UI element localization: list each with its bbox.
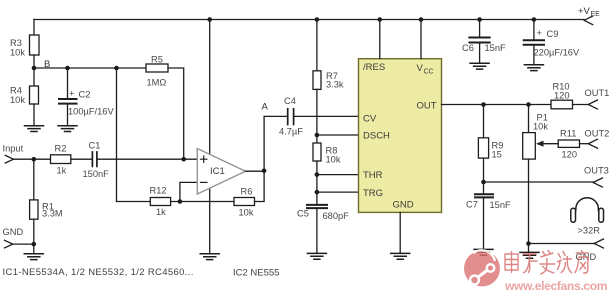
wire Vcc riser [420,20,422,59]
wire input row [14,158,51,160]
resistor R11 [558,140,579,147]
svg-text:220µF/16V: 220µF/16V [534,48,580,58]
resistor R7 [316,20,318,71]
svg-text:THR: THR [363,170,383,181]
svg-text:OUT1: OUT1 [585,88,610,98]
svg-text:R2: R2 [55,144,67,154]
ground below R4 [25,126,44,132]
svg-text:Input: Input [3,144,24,154]
resistor R5 [146,64,168,72]
wire OUT row [442,104,552,106]
OUT2 connector [588,139,597,148]
wire R5 right to noninverting input [168,68,184,159]
capacitor C1 [71,158,92,160]
headphone icon [576,198,599,211]
capacitor C5 [307,205,327,208]
op-amp U1 triangle [197,149,245,195]
svg-text:1k: 1k [57,166,67,176]
svg-text:R3: R3 [10,38,22,48]
potentiometer P1 [528,105,530,133]
resistor R9 [483,105,485,138]
wire C1 to op-amp [97,158,197,160]
svg-text:IC1-NE5534A, 1/2 NE5532, 1/2 R: IC1-NE5534A, 1/2 NE5532, 1/2 RC4560... [3,267,194,278]
GND connector right [594,239,603,248]
svg-text:10k: 10k [10,48,25,58]
wire 555 GND riser [399,212,401,253]
svg-text:3.3M: 3.3M [42,209,63,219]
svg-text:15nF: 15nF [485,43,507,53]
svg-text:CV: CV [363,114,377,125]
svg-text:OUT2: OUT2 [585,129,610,139]
svg-text:IC1: IC1 [210,166,225,177]
svg-text:OUT3: OUT3 [584,166,609,176]
svg-text:680pF: 680pF [323,211,350,221]
wire top supply rail [34,19,584,21]
wire inverting input riser [180,182,197,201]
svg-text:>32R: >32R [578,226,601,236]
svg-text:C6: C6 [462,43,474,53]
op-amp - input mark [201,181,207,183]
watermark logo [464,250,500,286]
input connector [5,155,13,163]
capacitor C6 [479,20,481,38]
svg-text:10k: 10k [533,122,548,132]
wire /RES riser [379,20,381,59]
svg-text:15: 15 [492,150,502,160]
IC2 NE555 box [359,59,442,213]
svg-text:R12: R12 [150,186,167,196]
svg-text:B: B [44,59,50,70]
ground below C9 [524,65,543,71]
svg-text:+: + [69,89,74,99]
svg-text:C9: C9 [547,29,559,39]
resistor R1 [33,159,35,200]
wire DSCH row [317,134,359,136]
ground below C5 [307,253,326,259]
OUT3 connector [593,178,602,187]
ground below 555 [391,253,410,259]
resistor R10 [551,100,573,109]
op-amp + input mark [201,156,207,162]
svg-text:10k: 10k [326,155,341,165]
ground below C7 [474,249,493,255]
svg-text:C7: C7 [466,200,478,210]
svg-text:V: V [417,63,424,74]
svg-text:www.elecfans.com: www.elecfans.com [504,279,607,293]
svg-text:R6: R6 [241,187,253,197]
wire R3 riser [33,20,35,36]
svg-text:1k: 1k [156,207,166,217]
ground below C2 [58,126,77,132]
wire GND row right [529,243,595,245]
capacitor C7 [483,182,485,194]
svg-text:GND: GND [3,227,24,237]
svg-text:R11: R11 [560,129,576,139]
svg-text:C2: C2 [79,90,91,100]
resistor R3 [30,35,40,55]
svg-text:C1: C1 [89,141,101,151]
wire R3 to node B [33,55,35,68]
svg-text:C4: C4 [284,96,296,106]
svg-text:OUT: OUT [417,101,437,112]
svg-text:15nF: 15nF [490,200,512,210]
svg-text:A: A [262,102,269,113]
svg-text:GND: GND [393,200,414,211]
wire op-amp output [246,170,265,172]
svg-text:100µF/16V: 100µF/16V [68,107,114,117]
svg-text:+V: +V [578,6,591,17]
svg-text:C5: C5 [297,209,309,219]
svg-text:CC: CC [424,69,434,76]
P1 wiper arrow [541,143,558,145]
svg-text:R5: R5 [151,55,163,65]
wire OUT3 row [484,181,594,183]
ground below P1 [520,252,539,258]
svg-text:3.3k: 3.3k [326,80,344,90]
svg-text:EE: EE [591,11,601,18]
capacitor C2 [67,68,69,99]
svg-text:+: + [537,28,542,38]
svg-text:150nF: 150nF [83,169,110,179]
svg-text:120: 120 [554,91,570,101]
+VEE connector [584,16,593,25]
wire TRG row [317,191,359,193]
wire node B row [34,67,146,69]
resistor R4 [33,68,35,86]
wire R12 to junction [171,201,234,203]
watermark chinese text [505,250,589,274]
resistor R8 [313,143,321,161]
svg-text:1MΩ: 1MΩ [147,78,167,88]
wire THR row [317,174,359,176]
OUT1 connector [588,100,597,109]
svg-text:/RES: /RES [363,62,385,73]
ground below C6 [470,63,489,69]
capacitor C9 [533,20,535,41]
svg-text:4.7µF: 4.7µF [279,127,303,137]
resistor R2 [51,155,71,164]
capacitor C4 [288,109,294,125]
ground below op-amp [200,254,219,260]
wire node A row to C4 [264,115,287,117]
svg-text:DSCH: DSCH [363,131,390,142]
resistor R12 [150,198,170,206]
ground below GND node [33,244,35,254]
svg-text:TRG: TRG [363,188,383,199]
wire feedback row to R12 [117,201,151,203]
wire R6 to output node [255,116,265,201]
op-amp ground riser [209,188,211,254]
svg-text:120: 120 [562,150,578,160]
svg-text:10k: 10k [10,95,25,105]
GND connector [5,240,13,248]
svg-text:10k: 10k [239,208,254,218]
svg-text:R4: R4 [10,86,22,96]
op-amp power riser top [209,20,211,155]
resistor R6 [234,198,255,206]
wire node B riser to feedback row [116,68,118,202]
svg-text:IC2 NE555: IC2 NE555 [233,268,279,279]
